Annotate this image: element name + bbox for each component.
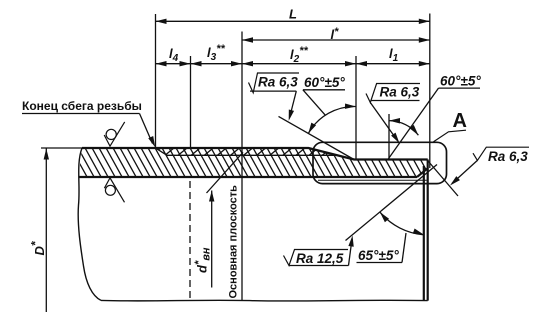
- svg-text:Ra 12,5: Ra 12,5: [296, 251, 344, 266]
- svg-text:Основная плоскость: Основная плоскость: [228, 185, 240, 299]
- svg-text:Конец сбега резьбы: Конец сбега резьбы: [22, 99, 142, 113]
- bore taper line: [207, 152, 244, 193]
- dimension l*: [242, 26, 430, 43]
- inner chamfer 65 deg: [417, 168, 428, 177]
- extension line right (pipe end): [429, 14, 431, 169]
- svg-text:L: L: [289, 7, 297, 22]
- thread root line: [156, 148, 337, 155]
- end face chamfer ray: [427, 160, 458, 196]
- roughness Ra 6,3 first: [249, 73, 300, 121]
- extension line l4/l3: [190, 56, 192, 148]
- svg-text:Ra 6,3: Ra 6,3: [380, 85, 420, 100]
- view A callout rounded rect: [313, 142, 447, 183]
- dimension L: [156, 7, 430, 25]
- pipe inner surface: [79, 176, 418, 178]
- label end of thread runout: [22, 99, 158, 148]
- dimension d*vn: [193, 191, 214, 288]
- roughness Ra 6,3 right: [448, 147, 529, 187]
- dimension l3**: [191, 43, 243, 66]
- angle arc 60 deg right: [389, 118, 421, 137]
- angle arc 65 deg: [378, 210, 425, 237]
- dimension D*: [29, 149, 50, 312]
- inner chamfer extension line 65 deg: [346, 165, 438, 241]
- outer surface extension left: [41, 147, 82, 149]
- pipe outer surface: [82, 148, 428, 160]
- svg-text:Ra 6,3: Ra 6,3: [488, 149, 528, 164]
- label 60 deg left: [303, 75, 345, 115]
- roughness Ra 12,5: [284, 235, 356, 266]
- dimension l4: [156, 46, 191, 66]
- svg-text:A: A: [453, 110, 467, 132]
- dimension l2**: [242, 45, 356, 66]
- svg-text:65°±5°: 65°±5°: [358, 248, 399, 263]
- label 60 deg right: [439, 74, 482, 89]
- bore relief line: [318, 179, 427, 181]
- dimension chain line: [156, 63, 430, 65]
- bottom break line: [101, 299, 428, 302]
- pipe end face: [427, 160, 429, 301]
- thread runout extension line: [279, 116, 355, 159]
- svg-text:Ra 6,3: Ra 6,3: [258, 75, 298, 90]
- surface symbol top (no material removal): [104, 122, 125, 146]
- surface symbol bottom (no material removal): [104, 178, 124, 202]
- dimension l1: [356, 46, 430, 66]
- basic plane line: [241, 32, 243, 301]
- svg-text:60°±5°: 60°±5°: [440, 74, 481, 89]
- label 65 deg: [357, 233, 407, 263]
- extension line l2/l1: [355, 56, 357, 160]
- bore axis dashed line: [189, 181, 191, 298]
- left break line: [78, 148, 101, 300]
- pipe end chamfer edge: [423, 166, 425, 301]
- end chamfer extension line 60 deg: [389, 88, 439, 159]
- extension line left (end of thread runout): [155, 14, 157, 148]
- label A: [434, 110, 467, 142]
- thread zone cross hatching: [151, 148, 344, 156]
- pipe wall hatching: [70, 146, 459, 179]
- roughness Ra 6,3 second: [366, 84, 420, 145]
- svg-text:60°±5°: 60°±5°: [304, 75, 345, 90]
- vertical reference at chamfer vertex: [388, 114, 390, 159]
- angle arc 60 deg left: [306, 103, 356, 134]
